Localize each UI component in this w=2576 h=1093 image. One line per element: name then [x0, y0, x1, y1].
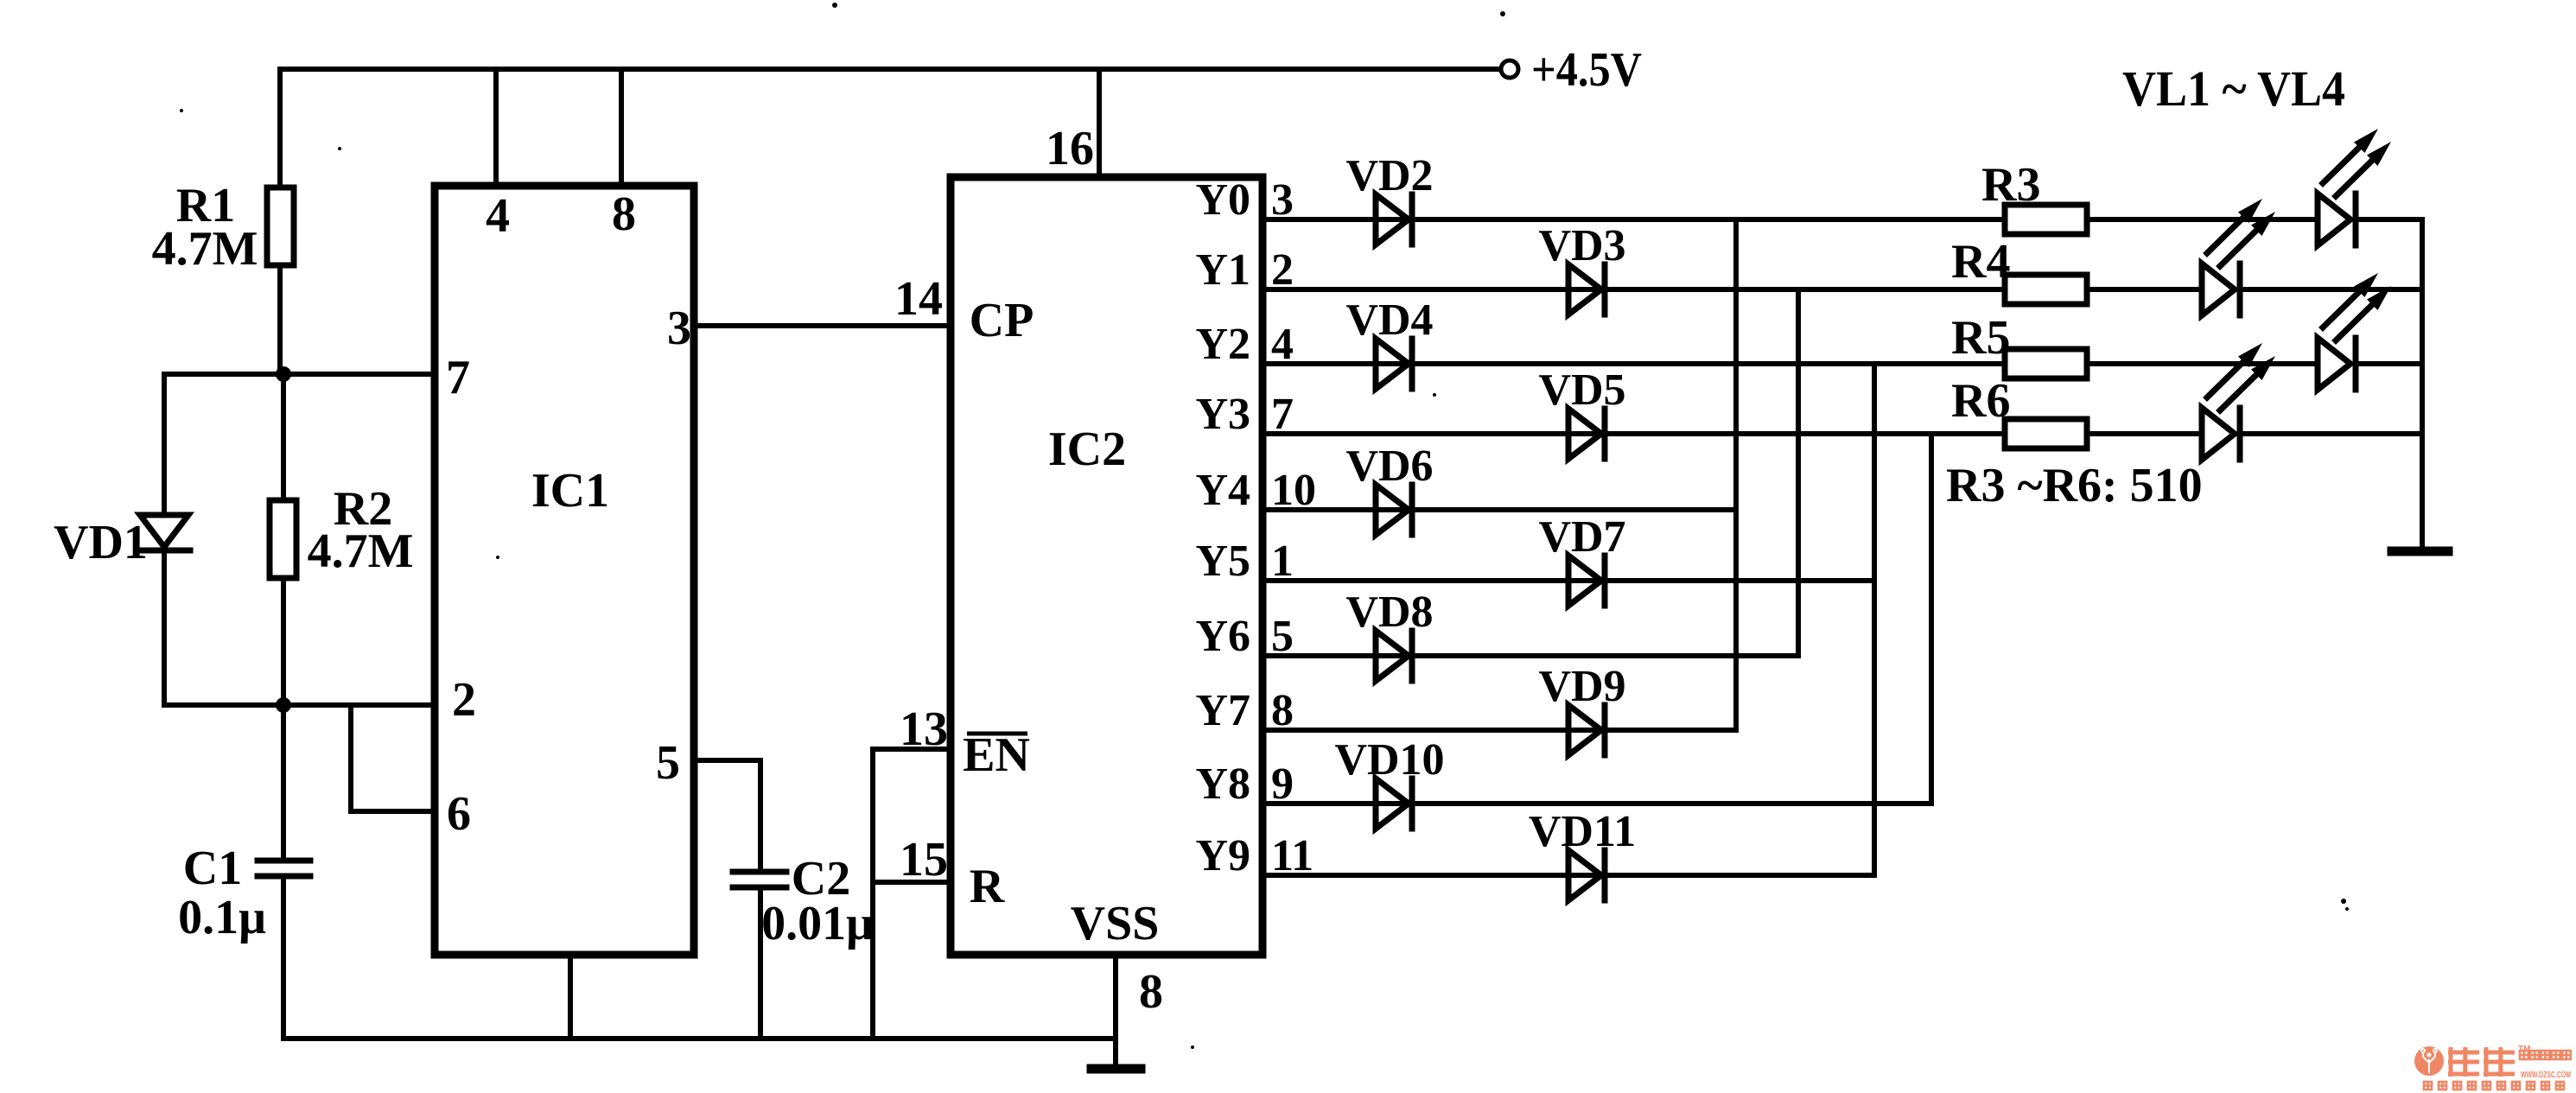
svg-text:Y5: Y5	[1195, 537, 1250, 586]
svg-text:VL1 ~ VL4: VL1 ~ VL4	[2122, 60, 2345, 117]
svg-text:10: 10	[1271, 466, 1316, 515]
svg-text:Y7: Y7	[1195, 686, 1250, 735]
svg-text:0.1μ: 0.1μ	[178, 891, 266, 944]
svg-text:IC2: IC2	[1048, 423, 1126, 476]
svg-text:8: 8	[1139, 965, 1163, 1019]
svg-text:EN: EN	[963, 728, 1030, 782]
svg-text:VD6: VD6	[1345, 442, 1433, 491]
svg-text:VD7: VD7	[1538, 512, 1625, 562]
svg-text:Y2: Y2	[1195, 320, 1250, 369]
svg-text:CP: CP	[970, 294, 1034, 347]
svg-text:4: 4	[1271, 320, 1294, 369]
svg-text:8: 8	[612, 187, 636, 241]
svg-text:Y3: Y3	[1195, 390, 1250, 439]
svg-text:R6: R6	[1951, 374, 2010, 428]
svg-text:R: R	[970, 860, 1005, 913]
svg-text:0.01μ: 0.01μ	[761, 897, 874, 950]
svg-text:VD9: VD9	[1538, 662, 1625, 711]
svg-text:Y0: Y0	[1195, 175, 1250, 225]
svg-text:VD1: VD1	[54, 516, 148, 569]
svg-text:7: 7	[446, 351, 470, 404]
svg-text:13: 13	[900, 702, 948, 756]
svg-text:16: 16	[1046, 122, 1094, 175]
svg-text:VD2: VD2	[1345, 151, 1433, 200]
svg-text:+4.5V: +4.5V	[1531, 43, 1642, 97]
svg-text:3: 3	[667, 302, 691, 355]
svg-text:R3: R3	[1981, 158, 2040, 212]
svg-text:VSS: VSS	[1071, 897, 1160, 950]
svg-text:R3 ~R6: 510: R3 ~R6: 510	[1946, 459, 2203, 512]
svg-text:5: 5	[656, 736, 680, 790]
svg-text:VD8: VD8	[1345, 588, 1433, 637]
svg-text:1: 1	[1271, 537, 1294, 586]
svg-text:C1: C1	[183, 842, 242, 895]
svg-text:VD4: VD4	[1345, 295, 1433, 345]
svg-text:R4: R4	[1951, 235, 2010, 289]
svg-text:2: 2	[452, 673, 476, 727]
svg-text:Y6: Y6	[1195, 612, 1250, 661]
svg-text:VD3: VD3	[1538, 221, 1625, 270]
svg-text:14: 14	[894, 272, 943, 326]
svg-text:Y1: Y1	[1195, 245, 1250, 295]
svg-text:15: 15	[900, 833, 948, 886]
svg-text:IC1: IC1	[531, 464, 609, 518]
svg-text:WWW.DZSC.COM: WWW.DZSC.COM	[2521, 1071, 2571, 1080]
svg-text:4.7M: 4.7M	[308, 524, 414, 578]
svg-text:VD5: VD5	[1538, 365, 1625, 415]
svg-text:Y4: Y4	[1195, 466, 1250, 515]
svg-text:5: 5	[1271, 612, 1294, 661]
svg-text:7: 7	[1271, 390, 1294, 439]
svg-text:VD11: VD11	[1529, 807, 1636, 856]
svg-text:9: 9	[1271, 759, 1294, 809]
svg-text:3: 3	[1271, 175, 1294, 225]
svg-text:4: 4	[486, 189, 510, 243]
svg-text:2: 2	[1271, 245, 1294, 295]
svg-text:6: 6	[447, 787, 471, 841]
svg-text:VD10: VD10	[1334, 735, 1444, 785]
svg-text:Y8: Y8	[1195, 759, 1250, 809]
svg-text:8: 8	[1271, 686, 1294, 735]
svg-text:4.7M: 4.7M	[152, 222, 258, 276]
svg-text:Y9: Y9	[1195, 831, 1250, 880]
svg-text:R5: R5	[1951, 311, 2010, 365]
svg-text:11: 11	[1271, 831, 1313, 880]
